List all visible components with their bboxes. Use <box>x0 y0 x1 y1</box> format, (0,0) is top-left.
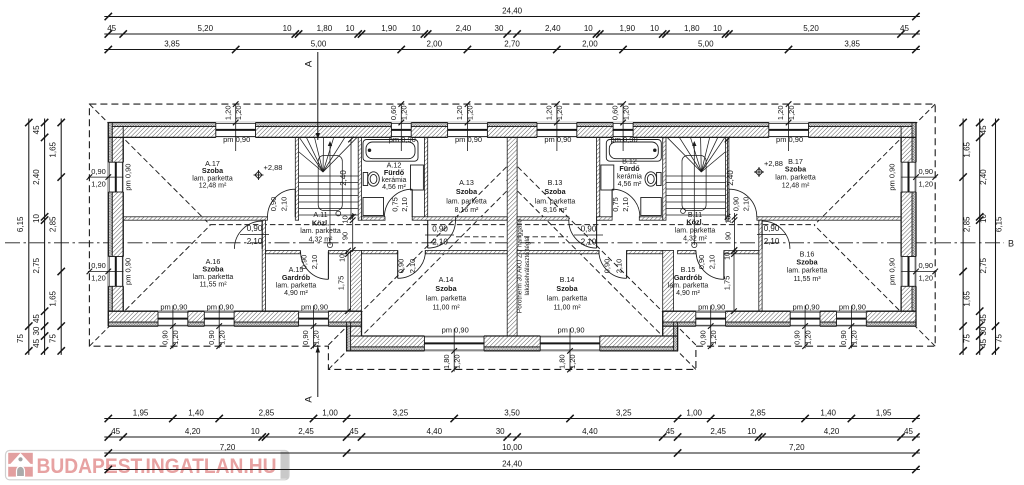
svg-text:2,10: 2,10 <box>280 197 289 212</box>
svg-text:4,20: 4,20 <box>824 427 840 436</box>
svg-text:1,20: 1,20 <box>787 105 796 120</box>
svg-text:0,90: 0,90 <box>91 167 106 176</box>
svg-text:1,80: 1,80 <box>558 354 567 369</box>
valley right from step corner <box>509 158 696 345</box>
svg-text:10: 10 <box>747 427 756 436</box>
svg-text:lam. parketta: lam. parketta <box>300 228 341 235</box>
door B.12 bath <box>612 189 640 217</box>
svg-text:4,90 m²: 4,90 m² <box>284 290 308 297</box>
svg-text:1,20: 1,20 <box>918 274 933 283</box>
svg-text:0,90: 0,90 <box>247 224 263 233</box>
svg-text:0,90: 0,90 <box>697 255 706 270</box>
section line B-B dash-dot <box>5 239 1014 249</box>
svg-text:pm 0,90: pm 0,90 <box>442 326 469 335</box>
hip bottom-left <box>89 225 210 346</box>
svg-text:3,50: 3,50 <box>504 409 520 418</box>
svg-text:2,70: 2,70 <box>504 40 520 49</box>
svg-text:45: 45 <box>979 338 988 347</box>
svg-text:0,90: 0,90 <box>432 225 448 234</box>
top dimension row 1 (24,40) <box>104 7 920 21</box>
svg-text:Gardrób: Gardrób <box>282 273 311 282</box>
bottom dimension row 3 <box>104 443 920 457</box>
svg-text:11,00 m²: 11,00 m² <box>432 305 460 312</box>
room label B.14 <box>547 275 588 312</box>
svg-text:0,90: 0,90 <box>581 225 597 234</box>
watermark house icon <box>8 453 33 477</box>
svg-text:4,40: 4,40 <box>582 427 598 436</box>
svg-text:30: 30 <box>32 326 41 335</box>
svg-text:Porotherm 30 AKU Z 7 hanggátló: Porotherm 30 AKU Z 7 hanggátló <box>517 218 524 313</box>
roof hip and valley dashed lines <box>89 104 935 369</box>
svg-text:1,80: 1,80 <box>684 24 700 33</box>
svg-text:0,90: 0,90 <box>764 224 780 233</box>
svg-text:A: A <box>304 396 315 403</box>
svg-text:45: 45 <box>32 338 41 347</box>
toilet A.12 <box>363 172 379 186</box>
svg-text:2,45: 2,45 <box>298 427 314 436</box>
svg-text:1,00: 1,00 <box>686 409 702 418</box>
svg-text:0,90: 0,90 <box>91 261 106 270</box>
svg-text:1,20: 1,20 <box>400 105 409 120</box>
svg-text:2,85: 2,85 <box>750 409 766 418</box>
svg-text:Fürdő: Fürdő <box>384 168 405 177</box>
svg-text:1,80: 1,80 <box>317 24 333 33</box>
svg-text:B.13: B.13 <box>548 178 563 187</box>
svg-text:2,10: 2,10 <box>614 259 623 274</box>
door B.14 <box>599 251 627 279</box>
svg-text:0,90: 0,90 <box>603 259 612 274</box>
hip right of protrusion roof <box>507 180 696 369</box>
door B.15 <box>696 252 724 280</box>
svg-text:3,85: 3,85 <box>844 40 860 49</box>
svg-text:Szoba: Szoba <box>544 187 566 196</box>
svg-text:1,20: 1,20 <box>568 354 577 369</box>
svg-text:lam. parketta: lam. parketta <box>193 274 234 281</box>
svg-text:45: 45 <box>350 427 359 436</box>
svg-text:1,95: 1,95 <box>876 409 892 418</box>
dim 1,75 B.15 <box>723 248 737 314</box>
svg-text:2,85: 2,85 <box>48 216 57 232</box>
svg-text:1,20: 1,20 <box>91 274 106 283</box>
svg-text:Gardrób: Gardrób <box>674 273 703 282</box>
svg-text:24,40: 24,40 <box>502 7 523 16</box>
svg-text:0,90: 0,90 <box>396 259 405 274</box>
svg-text:lam. parketta: lam. parketta <box>668 283 709 290</box>
svg-text:10: 10 <box>346 24 355 33</box>
svg-text:45: 45 <box>900 24 909 33</box>
svg-text:30: 30 <box>495 24 504 33</box>
svg-text:3,85: 3,85 <box>164 40 180 49</box>
bottom dimension row 2 <box>104 427 920 441</box>
svg-text:Szoba: Szoba <box>435 284 457 293</box>
ridge line <box>210 224 814 226</box>
washbasin B.12 <box>601 165 661 216</box>
right dimension column middle <box>976 119 988 355</box>
svg-text:1,20: 1,20 <box>234 105 243 120</box>
svg-text:2,85: 2,85 <box>962 216 971 232</box>
svg-text:1,20: 1,20 <box>452 354 461 369</box>
headroom dashed segment middle <box>456 236 568 238</box>
svg-text:lam. parketta: lam. parketta <box>675 228 716 235</box>
svg-text:1,40: 1,40 <box>188 409 204 418</box>
room label B.11 <box>675 210 716 242</box>
svg-text:pm 0,90: pm 0,90 <box>223 135 250 144</box>
svg-text:1,20: 1,20 <box>709 330 718 345</box>
svg-text:0,75: 0,75 <box>391 197 400 212</box>
svg-text:75: 75 <box>995 334 1004 343</box>
top dimension row 3 <box>104 40 920 54</box>
svg-text:90: 90 <box>341 232 350 240</box>
right dimension column inner <box>959 119 971 355</box>
toilet B.12 <box>645 172 661 186</box>
svg-text:4,32 m²: 4,32 m² <box>683 235 707 242</box>
door A.14 <box>398 251 426 279</box>
svg-text:pm 0,90: pm 0,90 <box>698 303 725 312</box>
watermark budapest.ingatlan.hu <box>6 451 290 480</box>
svg-text:2,10: 2,10 <box>408 259 417 274</box>
room label A.13 <box>446 178 487 214</box>
svg-text:1,80: 1,80 <box>442 354 451 369</box>
svg-text:lam. parketta: lam. parketta <box>192 175 233 182</box>
top dimension row 2 <box>104 24 920 38</box>
label 10 wall A <box>339 254 346 262</box>
hip top-right <box>814 104 935 225</box>
svg-text:1,00: 1,00 <box>322 409 338 418</box>
svg-text:pm 0,90: pm 0,90 <box>207 303 234 312</box>
svg-text:5,00: 5,00 <box>311 40 327 49</box>
hip top-left <box>89 104 210 225</box>
svg-text:lakáselválasztó tégla: lakáselválasztó tégla <box>524 236 531 295</box>
junction circle B <box>681 209 686 214</box>
svg-text:0,60: 0,60 <box>611 105 620 120</box>
label 10 wall B <box>725 252 732 260</box>
svg-text:3,25: 3,25 <box>393 409 409 418</box>
room label A.12 <box>382 161 407 192</box>
svg-text:0,60: 0,60 <box>389 105 398 120</box>
svg-text:24,40: 24,40 <box>502 460 523 469</box>
svg-text:pm 0,90: pm 0,90 <box>455 135 482 144</box>
svg-text:75: 75 <box>962 334 971 343</box>
svg-text:8,16 m²: 8,16 m² <box>455 207 479 214</box>
svg-text:0,90: 0,90 <box>793 330 802 345</box>
svg-text:2,00: 2,00 <box>427 40 443 49</box>
svg-text:7,20: 7,20 <box>220 443 236 452</box>
room label A.16 <box>193 257 234 289</box>
svg-text:Szoba: Szoba <box>785 165 807 174</box>
svg-text:2,10: 2,10 <box>400 197 409 212</box>
svg-text:pm 0,90: pm 0,90 <box>124 164 133 191</box>
svg-text:4,90 m²: 4,90 m² <box>676 290 700 297</box>
svg-text:+2,88: +2,88 <box>764 159 783 168</box>
svg-text:Közl.: Közl. <box>686 218 703 227</box>
svg-text:lam. parketta: lam. parketta <box>426 295 467 302</box>
room label B.12 <box>617 157 642 189</box>
svg-text:1,20: 1,20 <box>91 179 106 188</box>
svg-text:10: 10 <box>412 24 421 33</box>
svg-text:1,75: 1,75 <box>723 276 732 291</box>
svg-text:5,20: 5,20 <box>198 24 214 33</box>
room label A.15 <box>276 265 317 297</box>
svg-text:30: 30 <box>979 326 988 335</box>
svg-text:10: 10 <box>725 252 732 260</box>
hip left of protrusion roof <box>328 180 517 369</box>
svg-text:1,20: 1,20 <box>621 105 630 120</box>
room label B.16 <box>787 250 828 284</box>
svg-text:Szoba: Szoba <box>202 166 224 175</box>
svg-text:10: 10 <box>650 24 659 33</box>
svg-text:2,10: 2,10 <box>581 238 597 247</box>
party wall <box>507 137 517 336</box>
svg-text:0,90: 0,90 <box>732 197 741 212</box>
bottom dimension row 1 <box>104 409 920 423</box>
svg-text:2,10: 2,10 <box>764 237 780 246</box>
svg-text:2,40: 2,40 <box>32 169 41 185</box>
door A.16 <box>234 221 262 249</box>
svg-text:0,90: 0,90 <box>207 330 216 345</box>
svg-text:1,20: 1,20 <box>918 179 933 188</box>
svg-text:2,85: 2,85 <box>259 409 275 418</box>
washbasin A.12 <box>363 165 423 216</box>
svg-text:45: 45 <box>32 314 41 323</box>
svg-text:Közl.: Közl. <box>312 218 329 227</box>
exterior walls hatched <box>108 123 916 351</box>
room label A.14 <box>426 275 467 312</box>
svg-text:1,20: 1,20 <box>171 330 180 345</box>
dim 1,75 A.15 <box>337 248 351 314</box>
svg-text:75: 75 <box>16 334 25 343</box>
svg-text:BUDAPEST.INGATLAN.HU: BUDAPEST.INGATLAN.HU <box>37 455 277 478</box>
svg-text:Szoba: Szoba <box>556 284 578 293</box>
svg-text:1,65: 1,65 <box>48 141 57 157</box>
svg-text:1,20: 1,20 <box>312 330 321 345</box>
svg-text:1,95: 1,95 <box>133 409 149 418</box>
door dimension labels <box>240 197 786 274</box>
svg-text:2,10: 2,10 <box>742 197 751 212</box>
svg-text:Szoba: Szoba <box>796 258 818 267</box>
svg-text:0,90: 0,90 <box>269 197 278 212</box>
svg-text:Fürdő: Fürdő <box>619 164 640 173</box>
svg-text:pm 0,90: pm 0,90 <box>557 326 584 335</box>
svg-text:lam. parketta: lam. parketta <box>276 283 317 290</box>
svg-text:Szoba: Szoba <box>456 187 478 196</box>
svg-text:90: 90 <box>724 232 733 240</box>
bathtub A.12 <box>363 140 418 162</box>
staircase A <box>299 138 359 248</box>
svg-text:6,15: 6,15 <box>995 216 1004 232</box>
svg-text:0,75: 0,75 <box>611 197 620 212</box>
svg-text:6,15: 6,15 <box>16 216 25 232</box>
svg-text:1,65: 1,65 <box>962 141 971 157</box>
section line A bottom <box>304 345 321 403</box>
svg-text:pm 0,90: pm 0,90 <box>124 258 133 285</box>
right dimension column outer <box>992 119 1004 355</box>
svg-text:1,40: 1,40 <box>820 409 836 418</box>
svg-text:2,10: 2,10 <box>708 255 717 270</box>
left dimension column inner <box>48 119 65 355</box>
svg-text:11,00 m²: 11,00 m² <box>553 305 581 312</box>
room label B.15 <box>668 265 709 297</box>
svg-text:0,90: 0,90 <box>918 167 933 176</box>
section line A top <box>304 52 321 140</box>
svg-text:kerámia: kerámia <box>382 177 407 184</box>
junction circle <box>336 211 341 216</box>
svg-text:45: 45 <box>107 24 116 33</box>
svg-text:10: 10 <box>32 214 41 223</box>
svg-text:0,90: 0,90 <box>918 261 933 270</box>
svg-text:45: 45 <box>32 125 41 134</box>
door A.12 bath <box>384 189 412 217</box>
level marker +2,88 <box>754 167 764 177</box>
window dimension labels <box>87 101 938 372</box>
svg-text:45: 45 <box>979 314 988 323</box>
svg-text:75: 75 <box>48 334 57 343</box>
svg-text:2,40: 2,40 <box>979 169 988 185</box>
svg-text:10: 10 <box>341 215 350 223</box>
svg-text:1,20: 1,20 <box>776 105 785 120</box>
left dimension column outer <box>16 119 33 355</box>
svg-text:A: A <box>304 60 315 67</box>
svg-text:5,00: 5,00 <box>698 40 714 49</box>
svg-text:lam. parketta: lam. parketta <box>787 268 828 275</box>
svg-text:30: 30 <box>496 427 505 436</box>
svg-text:1,20: 1,20 <box>466 105 475 120</box>
svg-text:pm 0,90: pm 0,90 <box>160 303 187 312</box>
svg-text:1,20: 1,20 <box>455 105 464 120</box>
svg-text:lam. parketta: lam. parketta <box>535 198 576 205</box>
svg-text:4,56 m²: 4,56 m² <box>618 181 642 188</box>
svg-text:4,56 m²: 4,56 m² <box>382 184 406 191</box>
svg-text:10,00: 10,00 <box>502 443 523 452</box>
svg-text:1,20: 1,20 <box>223 105 232 120</box>
door B.17 <box>729 189 757 217</box>
svg-text:2,75: 2,75 <box>979 257 988 273</box>
door A.17 <box>268 189 296 217</box>
svg-text:1,65: 1,65 <box>962 290 971 306</box>
svg-text:4,40: 4,40 <box>427 427 443 436</box>
svg-text:11,55 m²: 11,55 m² <box>199 282 227 289</box>
hip bottom-right <box>814 225 935 346</box>
svg-text:4,20: 4,20 <box>185 427 201 436</box>
svg-text:2,40: 2,40 <box>545 24 561 33</box>
svg-text:10: 10 <box>339 254 346 262</box>
svg-text:lam. parketta: lam. parketta <box>446 198 487 205</box>
svg-text:3,25: 3,25 <box>616 409 632 418</box>
svg-text:pm 0,90: pm 0,90 <box>544 135 571 144</box>
svg-text:2,10: 2,10 <box>310 255 319 270</box>
svg-text:1,20: 1,20 <box>803 330 812 345</box>
svg-text:B: B <box>1008 239 1014 249</box>
svg-text:2,10: 2,10 <box>247 237 263 246</box>
svg-text:45: 45 <box>979 125 988 134</box>
svg-text:10: 10 <box>283 24 292 33</box>
svg-text:8,16 m²: 8,16 m² <box>543 207 567 214</box>
svg-text:+2,88: +2,88 <box>264 163 283 172</box>
svg-text:1,65: 1,65 <box>48 290 57 306</box>
svg-text:2,40: 2,40 <box>456 24 472 33</box>
svg-text:10: 10 <box>724 215 733 223</box>
svg-text:1,90: 1,90 <box>381 24 397 33</box>
svg-text:pm 0,90: pm 0,90 <box>839 303 866 312</box>
level marker +2,88 <box>254 170 264 180</box>
svg-text:2,10: 2,10 <box>432 238 448 247</box>
svg-text:pm 0,90: pm 0,90 <box>793 303 820 312</box>
svg-text:lam. parketta: lam. parketta <box>547 295 588 302</box>
svg-text:0,90: 0,90 <box>839 330 848 345</box>
svg-text:1,20: 1,20 <box>545 105 554 120</box>
svg-text:1,20: 1,20 <box>217 330 226 345</box>
svg-text:pm 0,90: pm 0,90 <box>888 258 897 285</box>
svg-text:12,48 m²: 12,48 m² <box>199 183 227 190</box>
svg-text:B.14: B.14 <box>560 275 575 284</box>
svg-text:45: 45 <box>111 427 120 436</box>
svg-text:Szoba: Szoba <box>202 265 224 274</box>
svg-text:2,40: 2,40 <box>339 170 348 186</box>
svg-text:10: 10 <box>251 427 260 436</box>
svg-text:2,75: 2,75 <box>32 257 41 273</box>
room label B.13 <box>535 178 576 214</box>
svg-text:4,32 m²: 4,32 m² <box>309 236 333 243</box>
bottom dimension row 4 (24,40) <box>104 460 920 474</box>
svg-text:1,75: 1,75 <box>337 276 346 291</box>
svg-text:10: 10 <box>713 24 722 33</box>
door A.15 <box>301 252 329 280</box>
svg-text:lam. parketta: lam. parketta <box>775 175 816 182</box>
bathtub B.12 <box>606 140 661 162</box>
svg-text:1,20: 1,20 <box>850 330 859 345</box>
svg-text:2,45: 2,45 <box>710 427 726 436</box>
staircase B <box>666 138 726 248</box>
svg-text:11,55 m³: 11,55 m³ <box>793 276 821 283</box>
valley left from step corner <box>328 158 515 345</box>
svg-text:2,10: 2,10 <box>621 197 630 212</box>
svg-text:45: 45 <box>666 427 675 436</box>
svg-text:A.14: A.14 <box>439 275 454 284</box>
svg-text:1,90: 1,90 <box>620 24 636 33</box>
svg-text:1,20: 1,20 <box>555 105 564 120</box>
svg-text:5,20: 5,20 <box>803 24 819 33</box>
interior walls <box>123 137 901 336</box>
svg-text:kerámia: kerámia <box>617 174 642 181</box>
party wall annotation <box>517 218 532 313</box>
svg-text:10: 10 <box>979 214 988 223</box>
door A.13 <box>428 220 456 248</box>
left dimension column middle <box>32 119 49 355</box>
roof eaves dashed outline <box>89 104 935 369</box>
svg-text:0,90: 0,90 <box>698 330 707 345</box>
svg-text:2,40: 2,40 <box>726 170 735 186</box>
door B.13 <box>569 220 597 248</box>
svg-text:2,00: 2,00 <box>582 40 598 49</box>
svg-text:0,90: 0,90 <box>161 330 170 345</box>
room label A.11 <box>300 210 341 243</box>
wall face emphasis lines <box>108 123 916 351</box>
door B.16 <box>762 221 790 249</box>
windows <box>108 122 917 351</box>
svg-text:pm 0,90: pm 0,90 <box>301 303 328 312</box>
svg-text:A.13: A.13 <box>459 178 474 187</box>
svg-text:pm 0,90: pm 0,90 <box>776 135 803 144</box>
svg-text:12,48 m²: 12,48 m² <box>782 183 810 190</box>
svg-text:pm 0,90: pm 0,90 <box>888 164 897 191</box>
svg-text:7,20: 7,20 <box>789 443 805 452</box>
room label B.17 <box>775 157 816 190</box>
svg-text:45: 45 <box>904 427 913 436</box>
svg-text:0,90: 0,90 <box>301 330 310 345</box>
room label A.17 <box>192 159 233 190</box>
svg-text:10: 10 <box>584 24 593 33</box>
